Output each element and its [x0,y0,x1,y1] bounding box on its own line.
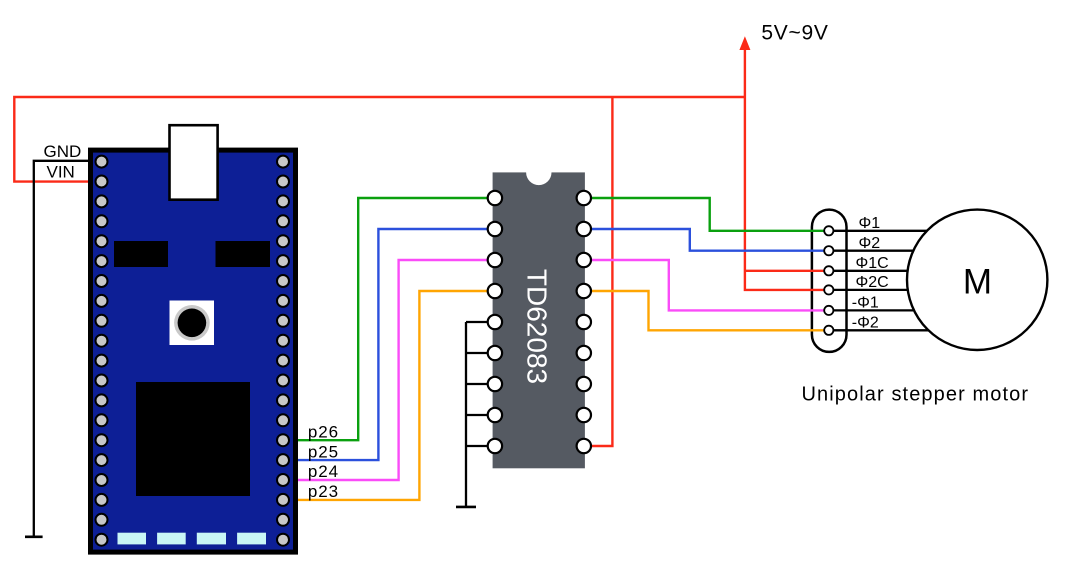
svg-text:-Φ2: -Φ2 [852,315,879,332]
svg-text:p24: p24 [308,462,339,481]
svg-text:Φ2: Φ2 [859,235,881,252]
svg-text:VIN: VIN [47,163,75,182]
svg-text:p26: p26 [308,422,339,441]
svg-text:Φ1C: Φ1C [856,255,889,272]
svg-text:Φ1: Φ1 [859,215,881,232]
svg-text:-Φ1: -Φ1 [852,295,879,312]
svg-text:M: M [963,263,992,302]
svg-text:Φ2C: Φ2C [856,274,889,291]
svg-text:5V~9V: 5V~9V [761,22,828,45]
svg-text:GND: GND [44,142,82,161]
svg-text:Unipolar stepper motor: Unipolar stepper motor [802,384,1030,406]
svg-text:TD62083: TD62083 [522,269,553,384]
svg-text:p25: p25 [308,442,339,461]
svg-text:p23: p23 [308,482,339,501]
